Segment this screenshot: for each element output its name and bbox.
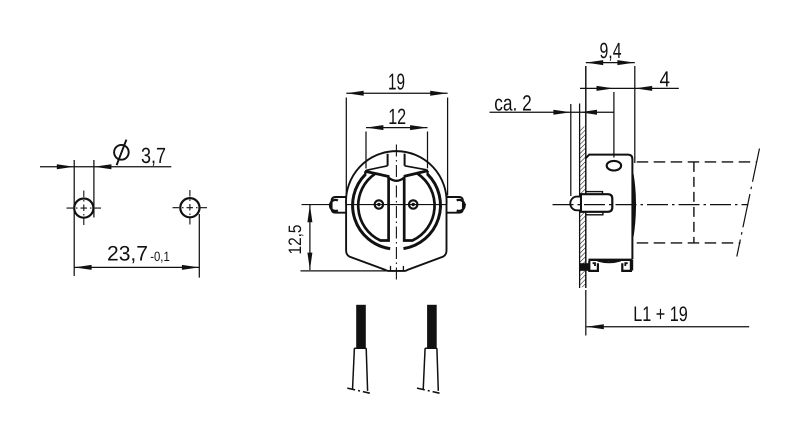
svg-text:12: 12 — [388, 104, 406, 129]
right ear notch — [457, 200, 465, 211]
main thick circle right arc — [404, 174, 441, 249]
ext lines 12 — [365, 132, 367, 169]
tube dashed bottom — [637, 242, 741, 244]
diameter symbol — [114, 140, 129, 166]
mounting hole ellipse — [607, 161, 621, 171]
dimension line dia 3,7 — [40, 166, 171, 168]
right foot — [622, 261, 631, 271]
ext line 9,4 right — [634, 66, 636, 163]
right ear — [446, 197, 463, 213]
hole circle left — [74, 199, 93, 218]
main thick circle left+bottom arc — [353, 174, 391, 248]
clip flange — [570, 197, 581, 211]
arrow dia3,7 right — [94, 164, 111, 169]
left wing upper edge — [366, 166, 387, 171]
side view centerline — [553, 204, 749, 206]
right wing upper edge — [405, 166, 427, 170]
arch over slot — [389, 178, 405, 181]
vertical centerline front view — [395, 145, 397, 282]
left ear — [332, 197, 347, 213]
svg-text:9,4: 9,4 — [600, 38, 622, 63]
pin hole left — [375, 200, 383, 208]
arrow dia3,7 left — [57, 164, 74, 169]
outer housing — [346, 151, 447, 271]
right wire break line — [417, 388, 440, 393]
svg-text:3,7: 3,7 — [141, 143, 166, 168]
funnel mouth right wall — [404, 154, 406, 166]
clip shaft — [581, 194, 612, 212]
horizontal centerline front view — [302, 204, 467, 206]
rotor left D — [358, 174, 388, 241]
left ear notch — [330, 200, 338, 211]
ext line 4 (hole center) — [613, 92, 615, 158]
dim line 19 — [346, 92, 447, 94]
svg-text:-0,1: -0,1 — [150, 249, 170, 264]
dim line 9,4 — [586, 62, 635, 64]
funnel mouth left wall — [387, 154, 389, 166]
plate left edge — [579, 104, 581, 289]
rotor right D — [404, 174, 434, 241]
rotor bulge crescent — [633, 174, 635, 237]
svg-text:12,5: 12,5 — [285, 225, 305, 255]
svg-text:L1 + 19: L1 + 19 — [633, 303, 688, 326]
slanted break line — [737, 149, 760, 257]
extension line right tangent of right hole — [198, 214, 200, 278]
extension line right tangent of left hole — [93, 160, 95, 218]
body bottom edge — [589, 259, 633, 261]
dim line 12 — [366, 127, 428, 129]
ext line 12,5 bottom — [301, 270, 389, 272]
left wire break line — [347, 388, 370, 393]
dim line 12,5 vertical — [309, 205, 311, 270]
ext lines 19 — [345, 98, 347, 196]
tube dashed vertical — [693, 162, 695, 243]
right wing tip connector — [426, 171, 429, 175]
dimension line 23,7 — [74, 266, 199, 268]
svg-text:4: 4 — [660, 67, 671, 92]
left wire insulated part — [356, 305, 366, 348]
dim line L1+19 — [586, 326, 749, 328]
svg-text:19: 19 — [388, 69, 405, 95]
centermark left hole — [67, 191, 102, 226]
mounting plate hatch — [580, 127, 586, 288]
centermark right hole — [173, 190, 208, 225]
bottom notch ticks — [390, 266, 392, 271]
left foot hook — [593, 263, 595, 266]
right wing lower edge — [404, 171, 428, 177]
left wing tip connector — [364, 171, 367, 175]
left foot — [589, 261, 598, 271]
body right edge below bottom — [631, 260, 633, 271]
svg-text:23,7: 23,7 — [107, 243, 148, 266]
ext line ca2 left — [570, 104, 572, 196]
tube dashed top — [637, 161, 757, 163]
L1 extension below plate — [585, 290, 587, 336]
body outline top and right — [586, 155, 633, 260]
rear clip blob — [580, 263, 590, 271]
right foot hook — [625, 263, 627, 266]
arrow 23,7 left — [74, 265, 91, 270]
extension line left tangent — [73, 160, 75, 276]
dim line 4 — [580, 87, 679, 89]
left wing lower edge — [365, 171, 390, 176]
right wire insulated part — [427, 305, 437, 348]
clip lower lip — [586, 212, 603, 215]
right wire stripped part — [423, 348, 438, 391]
wires below front view — [347, 305, 439, 393]
left wire stripped part — [353, 348, 368, 391]
dim line ca2 — [490, 111, 615, 113]
clip upper lip — [586, 192, 603, 195]
arrow 23,7 right — [182, 265, 199, 270]
pin hole right — [409, 200, 417, 208]
plate right edge — [585, 66, 587, 288]
svg-text:ca. 2: ca. 2 — [494, 90, 532, 115]
dip between feet — [598, 261, 621, 263]
hole circle right — [180, 198, 199, 217]
